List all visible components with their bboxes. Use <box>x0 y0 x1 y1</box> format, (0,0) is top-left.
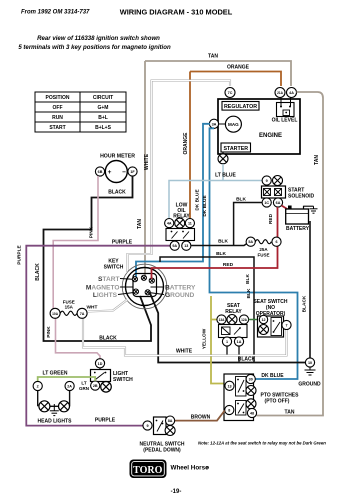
svg-text:WHT: WHT <box>87 305 98 311</box>
svg-text:BLK: BLK <box>216 251 226 257</box>
svg-text:BLK: BLK <box>245 274 251 284</box>
solenoid lamp <box>273 176 283 186</box>
seat relay box <box>219 325 248 338</box>
svg-text:6: 6 <box>275 240 277 244</box>
wire PURPLE <box>26 246 170 426</box>
low oil relay box <box>166 229 195 241</box>
svg-text:POSITION: POSITION <box>46 95 70 101</box>
svg-text:BLK: BLK <box>236 196 246 202</box>
key switch outer ring <box>122 264 167 309</box>
svg-text:PINK: PINK <box>46 326 52 338</box>
svg-text:STARTER: STARTER <box>223 146 248 152</box>
regulator box <box>222 102 259 111</box>
pto pin 30 <box>246 374 255 383</box>
svg-text:7A: 7A <box>80 312 85 316</box>
svg-text:(PEDAL DOWN): (PEDAL DOWN) <box>143 447 181 453</box>
battery <box>286 209 309 224</box>
wire ORANGE <box>190 72 281 219</box>
wire TAN top <box>145 61 323 416</box>
svg-text:1A: 1A <box>237 340 242 344</box>
svg-text:12A: 12A <box>241 318 248 322</box>
solenoid pin 9 <box>262 176 271 185</box>
svg-text:GRN: GRN <box>79 386 89 391</box>
svg-text:DK BLUE: DK BLUE <box>261 373 284 379</box>
svg-text:1C: 1C <box>264 201 269 205</box>
svg-text:5A: 5A <box>248 240 253 244</box>
seat relay pin 1A <box>238 346 240 362</box>
svg-text:BATTERY: BATTERY <box>286 226 310 232</box>
svg-text:4A: 4A <box>167 222 172 226</box>
svg-text:LT BLUE: LT BLUE <box>215 173 236 179</box>
svg-text:START: START <box>49 125 65 131</box>
wire WHITE key to fuse7A <box>88 300 128 312</box>
svg-text:RUN: RUN <box>52 115 63 121</box>
seat relay lamp <box>227 315 237 325</box>
engine box <box>218 99 300 154</box>
svg-text:TAN: TAN <box>285 410 295 416</box>
pto pin 48 <box>247 408 256 417</box>
svg-text:ORANGE: ORANGE <box>227 65 250 71</box>
wire YELLOW <box>211 296 225 384</box>
head light wires <box>38 391 70 407</box>
svg-text:TAN: TAN <box>314 155 320 165</box>
head light ground <box>50 404 59 416</box>
seat switch pin 12 <box>259 315 267 323</box>
svg-text:TORO: TORO <box>133 465 162 476</box>
wire PINK fuse to light switch <box>56 318 101 359</box>
svg-text:HEAD LIGHTS: HEAD LIGHTS <box>38 419 73 425</box>
svg-text:13: 13 <box>184 244 188 248</box>
svg-text:TAN: TAN <box>137 219 143 229</box>
ground symbol <box>305 367 316 375</box>
svg-text:RED: RED <box>223 262 234 268</box>
wire LT BLUE <box>169 164 262 219</box>
head light pin 2 <box>33 381 42 390</box>
light switch pin 1D <box>95 359 104 368</box>
ground pin 10 <box>305 358 314 367</box>
terminal 3A <box>219 123 226 125</box>
svg-text:MAG: MAG <box>228 122 239 127</box>
svg-text:LIGHTS: LIGHTS <box>93 292 118 299</box>
fuse 25A squiggle <box>255 240 271 244</box>
hour meter pin 6B <box>95 167 104 176</box>
svg-text:-19-: -19- <box>171 489 182 495</box>
svg-text:BLK: BLK <box>246 288 252 298</box>
svg-text:2B: 2B <box>93 384 98 388</box>
svg-text:+: + <box>108 169 112 176</box>
svg-text:RELAY: RELAY <box>225 309 242 315</box>
table text <box>46 95 114 131</box>
wire RED battery link <box>282 206 289 210</box>
key pointer dashes <box>118 279 164 295</box>
svg-text:G+M: G+M <box>98 105 109 111</box>
light switch box <box>99 368 101 370</box>
seat relay pin 13A <box>217 315 226 324</box>
svg-text:2A: 2A <box>67 385 72 389</box>
TORO logo <box>130 460 167 479</box>
svg-text:ORANGE: ORANGE <box>183 132 189 155</box>
pin 7C <box>225 88 235 98</box>
svg-text:REGULATOR: REGULATOR <box>224 104 257 110</box>
neutral lamp <box>165 426 175 436</box>
svg-text:3A: 3A <box>212 122 217 126</box>
svg-text:PURPLE: PURPLE <box>95 418 116 424</box>
pto switches box <box>224 374 254 421</box>
svg-text:(PTO OFF): (PTO OFF) <box>265 399 290 405</box>
wire DK GREEN 12A to 12 <box>249 319 259 321</box>
svg-text:BLK: BLK <box>218 238 228 244</box>
wire BLK key to junction <box>160 257 254 363</box>
svg-text:9: 9 <box>146 424 148 428</box>
svg-text:GROUND: GROUND <box>165 292 195 299</box>
neutral pin 8A <box>166 416 175 425</box>
relay pin 4A <box>165 219 174 228</box>
svg-text:OFF: OFF <box>53 105 63 111</box>
svg-text:6B: 6B <box>98 170 103 174</box>
svg-text:4A: 4A <box>289 91 294 95</box>
wire WHITE from 7C to key switch <box>128 81 231 273</box>
svg-text:5 terminals with 3 key positio: 5 terminals with 3 key positions for mag… <box>18 44 171 51</box>
wire RED solenoid to fuse <box>277 207 279 237</box>
svg-text:SOLENOID: SOLENOID <box>288 194 315 200</box>
svg-text:21A: 21A <box>277 91 284 95</box>
wire DK BLUE 2 (to seat/pto) <box>210 128 298 379</box>
svg-text:LT GREEN: LT GREEN <box>43 371 68 377</box>
head light pin 2A <box>65 381 74 390</box>
svg-text:TAN: TAN <box>208 54 218 60</box>
svg-text:Note: 12-12A at the seat switc: Note: 12-12A at the seat switch to relay… <box>198 441 326 446</box>
svg-text:DK BLUE: DK BLUE <box>195 189 201 211</box>
svg-text:BLACK: BLACK <box>108 190 126 196</box>
svg-text:PURPLE: PURPLE <box>17 244 23 264</box>
key switch body <box>126 268 164 306</box>
svg-text:WHITE: WHITE <box>176 349 193 355</box>
svg-text:12: 12 <box>261 318 265 322</box>
svg-text:15A: 15A <box>65 305 74 310</box>
starter lamp <box>222 152 224 164</box>
svg-text:BLACK: BLACK <box>99 336 117 342</box>
seat switch box <box>258 316 284 337</box>
svg-text:WIRING DIAGRAM - 310 MODEL: WIRING DIAGRAM - 310 MODEL <box>120 8 233 17</box>
svg-text:48: 48 <box>250 412 254 416</box>
svg-text:Rear view of 116338 ignition s: Rear view of 116338 ignition switch show… <box>37 35 160 42</box>
wire WHITE fuse7A seat7 <box>83 318 287 355</box>
svg-text:OIL LEVEL: OIL LEVEL <box>272 118 298 124</box>
starter box <box>221 143 251 152</box>
svg-text:LT: LT <box>81 381 86 386</box>
wire RED fuse to key <box>152 246 278 279</box>
magneto MAG <box>225 116 241 132</box>
fuse 15A pins <box>50 308 60 318</box>
neutral pin 9 <box>143 421 152 430</box>
svg-text:FUSE: FUSE <box>257 253 269 258</box>
svg-text:13: 13 <box>227 384 231 388</box>
wire DK BLUE 1 (mag to key) <box>136 124 210 277</box>
seat switch pin 7 <box>282 320 291 329</box>
svg-text:10A: 10A <box>52 312 59 316</box>
svg-text:SWITCH: SWITCH <box>104 265 124 271</box>
wire LT GREEN <box>38 377 95 381</box>
svg-text:1: 1 <box>226 340 228 344</box>
svg-text:CIRCUIT: CIRCUIT <box>93 95 113 101</box>
svg-text:RED: RED <box>268 213 274 224</box>
svg-text:GROUND: GROUND <box>298 382 321 388</box>
relay pin 11 <box>185 219 194 228</box>
wire BLK solenoid 1C <box>234 203 262 246</box>
pto lamp B <box>246 399 256 409</box>
svg-text:BLACK: BLACK <box>238 357 256 363</box>
battery ground <box>304 205 314 207</box>
pto pin 8 <box>225 405 234 414</box>
pin 21A <box>280 95 282 107</box>
fuse 15A squiggle <box>60 311 77 315</box>
pin 4A engine <box>290 95 292 107</box>
pto pin 13 <box>225 381 234 390</box>
svg-text:MAGNETO: MAGNETO <box>86 284 120 291</box>
solenoid pin 1C <box>262 198 271 207</box>
svg-text:1F: 1F <box>130 170 135 174</box>
svg-text:13A: 13A <box>219 318 226 322</box>
svg-text:WHITE: WHITE <box>144 153 150 170</box>
svg-text:BATTERY: BATTERY <box>165 284 196 291</box>
svg-text:BLACK: BLACK <box>35 263 41 281</box>
svg-text:PURPLE: PURPLE <box>112 239 133 245</box>
svg-text:START: START <box>98 276 120 283</box>
wire PINK hour meter to fuse <box>53 176 98 308</box>
svg-text:PINK: PINK <box>89 226 95 238</box>
svg-text:DK BLUE: DK BLUE <box>202 195 208 217</box>
svg-text:Wheel Horse: Wheel Horse <box>171 464 210 471</box>
oil level box <box>277 103 295 117</box>
key terminals <box>132 275 154 295</box>
head light lamp left <box>39 401 50 412</box>
solenoid pin 6A <box>273 198 282 207</box>
fuse 25A pins <box>246 237 255 246</box>
relay lamp <box>175 218 185 228</box>
svg-text:2: 2 <box>37 385 39 389</box>
seat relay pin 1 <box>226 346 228 355</box>
seat relay pin 12A <box>239 315 248 324</box>
svg-text:B+L+S: B+L+S <box>95 125 112 131</box>
wire BROWN <box>175 411 225 421</box>
svg-text:11: 11 <box>188 222 192 226</box>
light switch lamp <box>101 382 112 393</box>
svg-text:YELLOW: YELLOW <box>202 328 208 349</box>
svg-text:8: 8 <box>228 409 230 413</box>
seat switch lamp <box>259 325 269 335</box>
relay pin 13 <box>182 241 191 250</box>
svg-text:B+L: B+L <box>98 115 108 121</box>
light switch pin 2B <box>91 381 100 390</box>
svg-text:8A: 8A <box>168 419 173 423</box>
neutral switch box <box>154 417 167 435</box>
svg-text:7C: 7C <box>228 91 233 95</box>
svg-text:30: 30 <box>249 378 253 382</box>
svg-text:BROWN: BROWN <box>191 414 211 420</box>
wire BLACK key bottom 1 already drawn ; wire BLACK key bottom 2 <box>150 292 306 363</box>
svg-text:6A: 6A <box>276 201 281 205</box>
key body rounded rect <box>133 274 157 297</box>
svg-text:HOUR METER: HOUR METER <box>100 154 135 160</box>
svg-text:7: 7 <box>285 324 287 328</box>
svg-text:From 1992 OM 3314-737: From 1992 OM 3314-737 <box>21 10 90 16</box>
wire BLK relay13 to fuse5A <box>191 244 247 246</box>
hour meter <box>105 161 127 183</box>
svg-text:1D: 1D <box>98 362 103 366</box>
svg-text:−: − <box>122 169 126 176</box>
svg-text:10: 10 <box>308 361 312 365</box>
wire BLACK battery to ground pin <box>309 221 311 358</box>
svg-text:BLACK: BLACK <box>302 295 308 312</box>
key position table <box>35 92 126 132</box>
start solenoid box <box>262 186 286 198</box>
svg-text:SWITCH: SWITCH <box>113 377 133 383</box>
pto lamp A <box>246 386 256 396</box>
svg-text:9A: 9A <box>172 244 177 248</box>
wire BLACK hour meter loop <box>44 176 152 341</box>
svg-text:ENGINE: ENGINE <box>259 133 282 139</box>
svg-text:9: 9 <box>266 179 268 183</box>
svg-text:25A: 25A <box>259 247 268 252</box>
hour meter pin 1F <box>128 167 137 176</box>
head light lamp right <box>59 401 70 412</box>
relay pin 9A <box>170 241 179 250</box>
